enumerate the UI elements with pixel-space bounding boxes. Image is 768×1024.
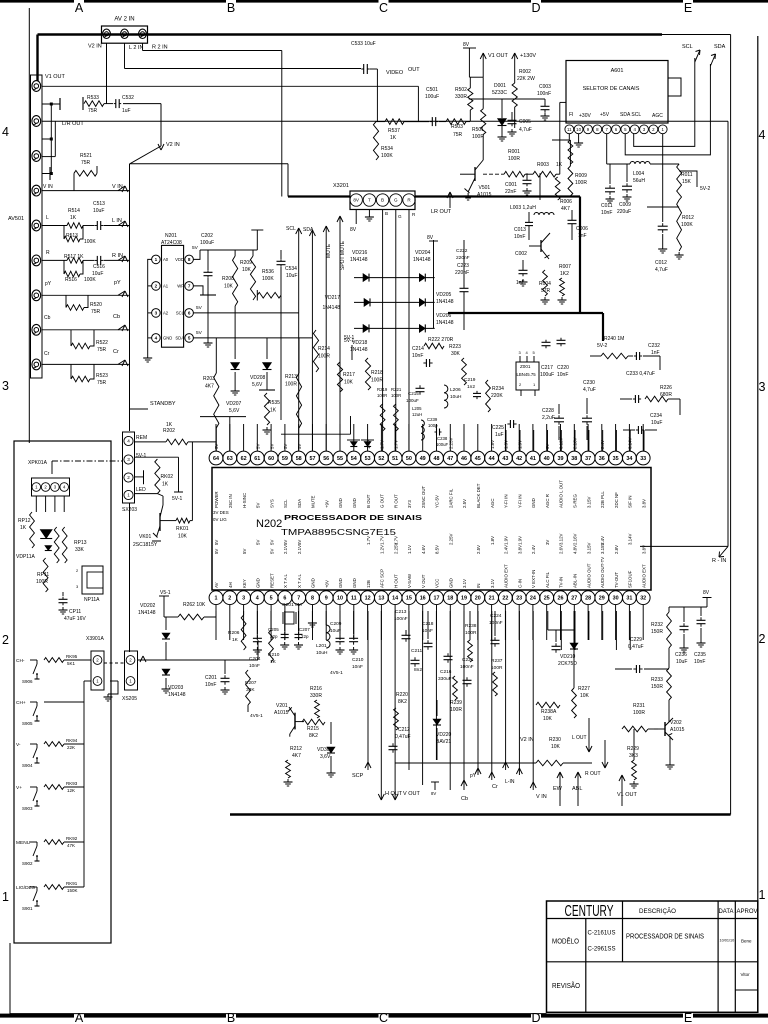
- svg-text:C-IN: C-IN: [517, 579, 522, 588]
- svg-text:75R: 75R: [97, 380, 107, 386]
- diode VD214: [364, 442, 371, 447]
- svg-text:OUT: OUT: [408, 67, 420, 73]
- svg-text:100K: 100K: [84, 239, 96, 245]
- svg-text:GND: GND: [311, 578, 316, 588]
- svg-text:15K: 15K: [682, 179, 692, 185]
- wire bottom heavy edge: [230, 813, 731, 815]
- svg-text:C211: C211: [411, 648, 422, 654]
- svg-text:3Y3: 3Y3: [407, 500, 412, 508]
- svg-text:54: 54: [351, 456, 357, 462]
- svg-text:C001: C001: [505, 182, 517, 188]
- svg-text:+30V: +30V: [579, 113, 591, 119]
- wire AGC drop: [662, 134, 664, 207]
- svg-text:40: 40: [544, 456, 550, 462]
- svg-text:6: 6: [283, 596, 286, 602]
- svg-text:19: 19: [461, 596, 467, 602]
- resistor R513: [63, 226, 65, 240]
- svg-text:220nF: 220nF: [456, 255, 470, 261]
- svg-text:Cb: Cb: [461, 796, 468, 802]
- capacitor C202 body: [207, 250, 209, 270]
- svg-text:VCC: VCC: [435, 579, 440, 588]
- svg-text:1: 1: [2, 890, 9, 904]
- wire WP: [193, 286, 203, 295]
- svg-text:3.15V: 3.15V: [600, 542, 605, 554]
- svg-text:APROV: APROV: [737, 908, 759, 915]
- IC N202 top pin stubs: [215, 424, 217, 451]
- svg-text:R534: R534: [381, 146, 393, 152]
- svg-text:V2 IN: V2 IN: [166, 142, 180, 148]
- svg-text:KEY: KEY: [242, 579, 247, 588]
- svg-text:330R: 330R: [455, 94, 467, 100]
- svg-text:R002: R002: [519, 69, 531, 75]
- svg-text:2.1V: 2.1V: [297, 545, 302, 554]
- svg-text:10nF: 10nF: [422, 628, 433, 634]
- svg-text:C516: C516: [93, 264, 105, 270]
- wire H OUT: [380, 611, 382, 800]
- tuner pins: [565, 125, 574, 134]
- svg-text:AGC: AGC: [652, 113, 663, 119]
- svg-text:AUDIO EXT: AUDIO EXT: [504, 564, 509, 588]
- svg-text:R535: R535: [268, 400, 280, 406]
- resistor R523: [70, 364, 72, 379]
- svg-text:R514: R514: [68, 208, 80, 214]
- svg-text:V-: V-: [16, 742, 21, 748]
- svg-text:1uF: 1uF: [495, 432, 504, 438]
- svg-text:ALC FIL: ALC FIL: [545, 571, 550, 588]
- connector AV 2 IN: [102, 26, 148, 43]
- svg-text:GND: GND: [449, 578, 454, 588]
- label Cr arrow: [489, 772, 492, 778]
- svg-text:AGC: AGC: [490, 498, 495, 508]
- svg-text:YC-5V: YC-5V: [435, 495, 440, 508]
- wire central box top edge: [130, 163, 289, 165]
- svg-text:SDA SCL: SDA SCL: [620, 112, 641, 118]
- svg-text:12K: 12K: [67, 788, 75, 793]
- diode VD205: [419, 298, 425, 306]
- svg-text:C212: C212: [398, 727, 410, 733]
- svg-text:2DC NF: 2DC NF: [614, 492, 619, 508]
- svg-text:H-SINC: H-SINC: [242, 493, 247, 508]
- svg-text:R537: R537: [388, 128, 400, 134]
- border bottom ruler bar: [0, 1014, 74, 1018]
- svg-text:1K: 1K: [166, 422, 173, 428]
- frame bottom line: [10, 1013, 547, 1015]
- resistor RK95: [44, 658, 64, 663]
- svg-text:3.12V: 3.12V: [559, 533, 564, 545]
- svg-text:3: 3: [242, 596, 245, 602]
- svg-text:R 2 IN: R 2 IN: [152, 45, 168, 51]
- svg-text:R221: R221: [391, 387, 402, 392]
- svg-text:5V: 5V: [256, 444, 261, 449]
- svg-text:SELETOR DE CANAIS: SELETOR DE CANAIS: [583, 86, 640, 92]
- svg-text:A: A: [75, 1011, 84, 1024]
- svg-text:POWER: POWER: [214, 491, 219, 508]
- svg-text:5V: 5V: [214, 549, 219, 554]
- svg-text:GND: GND: [338, 498, 343, 508]
- svg-text:52: 52: [378, 456, 384, 462]
- svg-text:2,2uF: 2,2uF: [542, 415, 555, 421]
- wire jack3 jog: [42, 156, 55, 158]
- svg-text:NP11A: NP11A: [84, 597, 100, 603]
- svg-text:1.8V: 1.8V: [490, 536, 495, 545]
- svg-text:R212: R212: [290, 746, 302, 752]
- svg-text:75R: 75R: [453, 132, 463, 138]
- svg-text:L206: L206: [450, 387, 461, 393]
- svg-text:45: 45: [475, 456, 481, 462]
- svg-text:C234: C234: [650, 413, 662, 419]
- svg-text:C210: C210: [352, 657, 364, 663]
- svg-text:R227: R227: [578, 686, 590, 692]
- svg-text:C005: C005: [519, 119, 531, 125]
- svg-text:46: 46: [461, 456, 467, 462]
- svg-text:59: 59: [282, 456, 288, 462]
- svg-text:V2 IN: V2 IN: [520, 737, 534, 743]
- svg-text:2.25V: 2.25V: [449, 437, 454, 449]
- border right edge line: [757, 36, 759, 1013]
- svg-text:100uF: 100uF: [406, 398, 419, 403]
- svg-text:V2 IN: V2 IN: [88, 44, 102, 50]
- wire SDA 5V: [193, 337, 312, 339]
- label +130V arrow: [512, 53, 515, 59]
- svg-text:A1015: A1015: [670, 727, 685, 733]
- svg-text:5V: 5V: [297, 540, 302, 545]
- svg-text:C202: C202: [201, 233, 213, 239]
- svg-text:TMPA8895CSNG7E15: TMPA8895CSNG7E15: [281, 528, 397, 537]
- svg-text:Y-FI IN: Y-FI IN: [517, 495, 522, 509]
- svg-text:MUTE: MUTE: [311, 495, 316, 508]
- svg-text:R OUT: R OUT: [393, 494, 398, 508]
- svg-text:9: 9: [325, 596, 328, 602]
- svg-text:35: 35: [613, 456, 619, 462]
- svg-text:C228: C228: [542, 408, 554, 414]
- svg-text:Cr: Cr: [492, 784, 498, 790]
- svg-text:100nF: 100nF: [537, 91, 551, 97]
- svg-text:C: C: [379, 1, 388, 15]
- svg-text:R229: R229: [627, 746, 639, 752]
- svg-text:3.8V: 3.8V: [641, 499, 646, 508]
- svg-text:5Z33C: 5Z33C: [492, 90, 507, 96]
- wire L/R OUT long: [42, 120, 728, 122]
- svg-text:55: 55: [337, 456, 343, 462]
- capacitor C005: [508, 119, 517, 121]
- svg-text:R233: R233: [651, 677, 663, 683]
- svg-text:5V: 5V: [283, 540, 288, 545]
- wire LED row: [135, 493, 158, 495]
- svg-text:100uF: 100uF: [200, 240, 214, 246]
- svg-text:1N4148: 1N4148: [436, 299, 454, 305]
- svg-text:R218: R218: [371, 370, 383, 376]
- wire main 8V bus top: [38, 33, 663, 35]
- svg-text:5V: 5V: [269, 540, 274, 545]
- svg-text:H OUT: H OUT: [385, 791, 403, 797]
- svg-text:MUTE: MUTE: [326, 243, 332, 258]
- svg-text:CH-: CH-: [16, 658, 25, 664]
- svg-text:RP13: RP13: [74, 540, 87, 546]
- svg-text:10uF: 10uF: [676, 659, 687, 665]
- svg-text:5V: 5V: [283, 444, 288, 449]
- wire FI left: [560, 101, 566, 103]
- svg-text:1N4148: 1N4148: [350, 347, 368, 353]
- wire 5V-1 row: [135, 456, 179, 458]
- IC A601 tuner: [566, 61, 668, 124]
- svg-text:C-2961SS: C-2961SS: [588, 946, 617, 953]
- svg-text:34: 34: [626, 456, 632, 462]
- svg-text:30: 30: [613, 596, 619, 602]
- svg-text:22K: 22K: [67, 745, 75, 750]
- svg-text:33K: 33K: [75, 547, 85, 553]
- svg-text:L OUT: L OUT: [572, 735, 587, 741]
- svg-text:B: B: [227, 1011, 235, 1024]
- svg-text:C239: C239: [427, 417, 438, 422]
- svg-text:32: 32: [640, 596, 646, 602]
- svg-text:GND: GND: [256, 578, 261, 588]
- svg-text:TV-IN: TV-IN: [559, 577, 564, 588]
- svg-text:R238A: R238A: [541, 709, 557, 715]
- capacitor C232: [635, 352, 637, 360]
- svg-text:47K: 47K: [67, 843, 75, 848]
- svg-text:CENTURY: CENTURY: [565, 903, 614, 920]
- wire pins 26-29 drops: [560, 611, 562, 650]
- svg-text:6: 6: [188, 311, 191, 316]
- svg-text:L003 1,2uH: L003 1,2uH: [510, 205, 536, 211]
- svg-text:MENU: MENU: [16, 840, 31, 846]
- svg-text:3: 3: [155, 311, 158, 316]
- svg-text:R215: R215: [307, 726, 319, 732]
- svg-text:R202: R202: [163, 428, 175, 434]
- svg-text:G: G: [394, 198, 398, 203]
- svg-text:220nF: 220nF: [455, 270, 469, 276]
- svg-text:R003: R003: [537, 162, 549, 168]
- resistor R203: [215, 338, 217, 373]
- svg-text:C225: C225: [492, 425, 504, 431]
- svg-text:AV501: AV501: [8, 216, 24, 222]
- svg-text:4,7uF: 4,7uF: [519, 127, 532, 133]
- svg-text:AV: AV: [214, 582, 219, 588]
- svg-text:4: 4: [256, 596, 259, 602]
- svg-text:L: L: [46, 215, 49, 221]
- wire key row feed: [137, 659, 258, 661]
- svg-text:1.9V: 1.9V: [517, 440, 522, 449]
- svg-text:C207: C207: [299, 627, 310, 632]
- svg-text:WP: WP: [177, 284, 184, 289]
- svg-text:V5-1: V5-1: [160, 590, 171, 596]
- svg-text:5V-1: 5V-1: [136, 453, 147, 459]
- svg-text:57: 57: [310, 456, 316, 462]
- svg-text:31: 31: [626, 596, 632, 602]
- svg-text:5V-1: 5V-1: [344, 335, 355, 341]
- resistor R520: [65, 295, 67, 307]
- svg-text:R536: R536: [262, 269, 274, 275]
- svg-text:REVISÃO: REVISÃO: [552, 981, 580, 990]
- svg-text:1.9V: 1.9V: [504, 536, 509, 545]
- svg-text:3V DES: 3V DES: [213, 510, 229, 515]
- svg-text:41: 41: [530, 456, 536, 462]
- svg-text:N201: N201: [165, 233, 177, 239]
- svg-text:100nF: 100nF: [489, 620, 503, 626]
- svg-text:56: 56: [323, 456, 329, 462]
- transistor V002: [540, 240, 542, 252]
- svg-text:20: 20: [475, 596, 481, 602]
- svg-text:2.25V: 2.25V: [449, 533, 454, 545]
- svg-text:AUDIO OUT: AUDIO OUT: [586, 563, 591, 588]
- svg-text:C532: C532: [122, 95, 134, 101]
- svg-text:R240 1M: R240 1M: [604, 336, 624, 342]
- svg-text:Z001: Z001: [520, 364, 531, 369]
- svg-text:220uF: 220uF: [617, 209, 631, 215]
- svg-text:5V: 5V: [196, 330, 203, 336]
- svg-text:75R: 75R: [97, 347, 107, 353]
- resistor R217: [337, 362, 342, 392]
- svg-text:5V: 5V: [196, 305, 203, 311]
- transistor V202: [664, 722, 666, 736]
- svg-text:C013: C013: [514, 227, 526, 233]
- svg-text:C223: C223: [457, 263, 469, 269]
- svg-text:100uF: 100uF: [425, 94, 439, 100]
- svg-text:8K2: 8K2: [309, 733, 318, 739]
- svg-text:2.4V: 2.4V: [504, 545, 509, 554]
- svg-text:100uF: 100uF: [436, 442, 449, 447]
- svg-text:8V: 8V: [353, 198, 360, 203]
- wire FI left: [552, 134, 569, 140]
- resistor R214: [313, 330, 318, 372]
- svg-text:S905: S905: [22, 721, 33, 726]
- diode VD217: [364, 298, 370, 306]
- svg-text:4K7: 4K7: [205, 384, 214, 390]
- svg-text:10/01/10: 10/01/10: [720, 939, 735, 943]
- svg-text:2SC1815Y: 2SC1815Y: [133, 542, 158, 548]
- svg-text:V1 OUT: V1 OUT: [488, 53, 509, 59]
- svg-text:4: 4: [2, 125, 9, 139]
- svg-text:GND: GND: [338, 578, 343, 588]
- svg-text:C: C: [379, 1011, 388, 1024]
- svg-text:5V: 5V: [297, 444, 302, 449]
- svg-text:36: 36: [599, 456, 605, 462]
- svg-text:4,7uF: 4,7uF: [583, 387, 596, 393]
- svg-text:48: 48: [434, 456, 440, 462]
- svg-text:5V-2: 5V-2: [597, 343, 608, 349]
- svg-text:7: 7: [297, 596, 300, 602]
- svg-text:V IN: V IN: [536, 794, 547, 800]
- svg-text:C215: C215: [408, 391, 419, 396]
- svg-text:1N4148: 1N4148: [138, 610, 156, 616]
- diode VD208: [266, 338, 268, 359]
- svg-text:4.6V: 4.6V: [421, 545, 426, 554]
- svg-text:S-REG: S-REG: [573, 494, 578, 508]
- svg-text:8: 8: [311, 596, 314, 602]
- svg-text:22: 22: [502, 596, 508, 602]
- svg-text:8V: 8V: [427, 235, 434, 241]
- svg-text:V1 OUT: V1 OUT: [45, 74, 66, 80]
- svg-text:5,6V: 5,6V: [229, 408, 240, 414]
- svg-text:5K1: 5K1: [67, 661, 76, 666]
- svg-text:62: 62: [241, 456, 247, 462]
- svg-text:5V: 5V: [256, 540, 261, 545]
- svg-text:150R: 150R: [651, 684, 663, 690]
- svg-text:5V: 5V: [242, 549, 247, 554]
- svg-text:R007: R007: [559, 264, 571, 270]
- svg-text:A2: A2: [163, 311, 169, 316]
- svg-text:R232: R232: [651, 622, 663, 628]
- svg-text:24: 24: [530, 596, 536, 602]
- resistor R535: [264, 393, 269, 425]
- svg-text:11: 11: [351, 596, 357, 602]
- svg-text:STANDBY: STANDBY: [150, 401, 176, 407]
- resistor R213: [296, 373, 301, 428]
- svg-text:RESET: RESET: [269, 573, 274, 588]
- border top ruler bar: [0, 0, 74, 3]
- svg-text:D: D: [531, 1, 540, 15]
- svg-text:pY: pY: [45, 281, 52, 287]
- resistor RK92: [44, 840, 64, 845]
- svg-text:SCL: SCL: [176, 311, 185, 316]
- svg-text:R230: R230: [549, 737, 561, 743]
- svg-text:100R: 100R: [450, 707, 462, 713]
- svg-text:10K: 10K: [543, 716, 553, 722]
- svg-text:1K: 1K: [20, 525, 27, 531]
- ground tuner pin10: [578, 134, 580, 140]
- svg-text:25: 25: [544, 596, 550, 602]
- svg-text:R216: R216: [310, 686, 322, 692]
- svg-text:5,6V: 5,6V: [252, 382, 263, 388]
- svg-text:R522: R522: [96, 340, 108, 346]
- svg-text:EW: EW: [553, 786, 563, 792]
- svg-text:V-SAW: V-SAW: [407, 573, 412, 588]
- IC N202 top pins: [209, 451, 223, 465]
- svg-text:60: 60: [268, 456, 274, 462]
- svg-text:53: 53: [365, 456, 371, 462]
- svg-text:330R: 330R: [310, 693, 322, 699]
- resistor RK93: [44, 785, 64, 790]
- svg-text:47: 47: [447, 456, 453, 462]
- diode matrix rows: [354, 277, 435, 279]
- wire SCL: [634, 58, 695, 146]
- svg-text:Y-FI IN: Y-FI IN: [504, 495, 509, 508]
- svg-text:C533 10uF: C533 10uF: [351, 41, 376, 47]
- resistor R533: [82, 97, 84, 110]
- svg-text:37: 37: [585, 456, 591, 462]
- svg-text:100R: 100R: [472, 134, 484, 140]
- svg-text:C220: C220: [557, 365, 569, 371]
- svg-text:C012: C012: [655, 260, 667, 266]
- svg-text:100R: 100R: [465, 630, 477, 636]
- svg-text:R262 10K: R262 10K: [183, 602, 206, 608]
- svg-text:R502: R502: [455, 87, 467, 93]
- svg-text:1N4148: 1N4148: [413, 257, 431, 263]
- resistor R208: [234, 250, 236, 256]
- wire central box right edge: [730, 35, 732, 815]
- svg-text:T: T: [368, 198, 371, 203]
- transistor V501: [474, 167, 476, 181]
- wire SCL 5V: [193, 312, 298, 314]
- svg-text:64: 64: [213, 456, 219, 462]
- svg-text:G201 8M: G201 8M: [282, 602, 302, 608]
- svg-text:1K: 1K: [162, 482, 169, 488]
- svg-text:38: 38: [571, 456, 577, 462]
- svg-text:3.14V: 3.14V: [628, 533, 633, 545]
- svg-text:LIG/DES: LIG/DES: [16, 885, 35, 891]
- svg-text:4V5-1: 4V5-1: [250, 713, 263, 719]
- svg-text:8V: 8V: [431, 791, 436, 796]
- svg-text:V IN: V IN: [43, 184, 53, 190]
- IC N202 bottom pins: [209, 591, 223, 605]
- svg-text:100K: 100K: [84, 277, 96, 283]
- svg-text:3.15V: 3.15V: [586, 496, 591, 508]
- svg-text:25C IN: 25C IN: [228, 494, 233, 508]
- svg-text:SDA: SDA: [714, 44, 726, 50]
- svg-text:VDP11A: VDP11A: [16, 554, 35, 560]
- svg-text:2.6V: 2.6V: [559, 545, 564, 554]
- diode VD218: [363, 324, 369, 332]
